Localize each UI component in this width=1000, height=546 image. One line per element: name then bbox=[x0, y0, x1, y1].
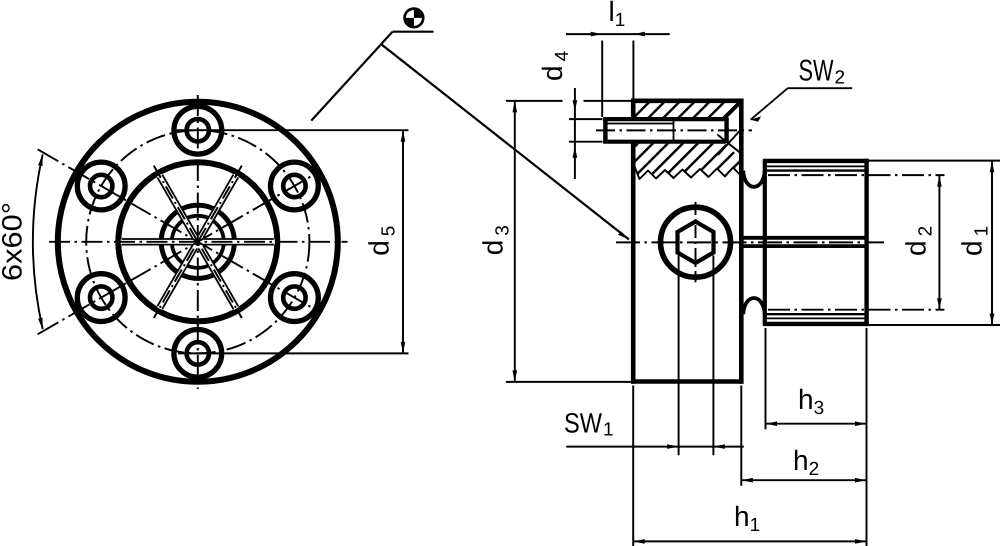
h2 arrow left bbox=[741, 478, 753, 483]
angle arc arrowhead top bbox=[38, 154, 43, 166]
set screw end divider bbox=[673, 121, 675, 140]
h3 arrow left bbox=[766, 421, 778, 426]
h3 ext line left bbox=[765, 328, 767, 429]
SW2 leader diagonal bbox=[751, 88, 788, 120]
d3 arrow top bbox=[513, 101, 518, 113]
angle arc arrowhead bottom bbox=[38, 318, 43, 330]
datum symbol filled quadrant bottom-left bbox=[405, 18, 414, 27]
d5 arrow top bbox=[401, 130, 406, 142]
flange outer circle bbox=[58, 102, 338, 382]
hatch band top (broken-out section) bbox=[635, 103, 740, 117]
flange bottom edge bbox=[631, 379, 744, 384]
undercut groove top bbox=[743, 171, 764, 187]
hatch region below hole with jagged break line bbox=[635, 144, 740, 179]
horizontal centerline bbox=[49, 241, 348, 243]
set screw hole top edge bbox=[603, 117, 726, 121]
spokes: 6 double radial lube grooves bbox=[122, 175, 274, 309]
d5 dimension line bbox=[402, 130, 404, 353]
bore thread line lower bbox=[741, 244, 866, 248]
hub circle bbox=[118, 162, 277, 321]
spoke white cores bbox=[121, 174, 275, 310]
d2 reference dash-dot bottom bbox=[768, 309, 945, 311]
thread minor circle bbox=[172, 216, 224, 268]
datum symbol filled quadrant top-right bbox=[414, 9, 423, 18]
thread root line top 1 bbox=[766, 165, 867, 167]
hex flat edge left / SW1 extension bbox=[678, 256, 680, 456]
l1 dimension line bbox=[566, 33, 670, 35]
cylinder top edge bbox=[763, 159, 869, 163]
bolt hole top bbox=[174, 106, 222, 154]
thread root line bottom 2 bbox=[766, 313, 867, 315]
leader leg to left view bbox=[311, 32, 392, 121]
h1 arrow right bbox=[855, 539, 867, 544]
d4 ext line hole top bbox=[569, 118, 603, 120]
d1 arrow top bbox=[990, 161, 995, 173]
SW1 dimension line bbox=[566, 446, 744, 448]
diagonal centerline 150-330 through holes bbox=[38, 149, 317, 310]
cylinder left face bbox=[763, 161, 767, 324]
cylinder bottom edge bbox=[763, 322, 869, 326]
h2 ext line left bbox=[740, 386, 742, 486]
d3 ext line top bbox=[506, 100, 563, 102]
thread major circle bbox=[161, 205, 234, 278]
symbol bar bbox=[393, 31, 434, 33]
SW2 leader bar bbox=[788, 87, 853, 89]
d4 arrow bottom bbox=[573, 147, 578, 158]
svg-text:6x60°: 6x60° bbox=[0, 202, 28, 281]
l1 ext line left bbox=[601, 41, 603, 118]
d4 arrow top bbox=[573, 100, 578, 110]
front hex socket vertical centerline bbox=[695, 202, 697, 282]
h1 ext line left bbox=[632, 386, 634, 546]
d3 ext line bottom bbox=[506, 381, 631, 383]
spoke dashdot 60-240 bbox=[154, 166, 242, 318]
d1 ext line top bbox=[869, 160, 1000, 162]
cylinder right face bbox=[864, 159, 868, 326]
d1 arrow bottom bbox=[990, 314, 995, 326]
angle dimension arc 6x60 bbox=[33, 154, 43, 329]
d4 dimension line bbox=[574, 88, 576, 179]
front hex socket circle bbox=[661, 207, 731, 277]
hole inner end cap bbox=[724, 117, 728, 143]
h1 dimension line bbox=[633, 540, 866, 542]
set screw axis centerline bbox=[596, 129, 752, 131]
shared right ext line h1 h2 h3 bbox=[866, 328, 868, 546]
d1 ext line bottom bbox=[869, 324, 1000, 326]
bolt hole upper-right bbox=[271, 162, 319, 210]
vertical centerline bbox=[197, 95, 199, 389]
h1 arrow left bbox=[633, 539, 645, 544]
SW1 arrow right bbox=[713, 444, 725, 449]
h3 dimension line bbox=[766, 423, 867, 425]
thread root line bottom 1 bbox=[766, 317, 867, 319]
datum symbol circle bbox=[405, 9, 424, 28]
l1 ext line right bbox=[632, 41, 634, 100]
l1 arrow left bbox=[591, 32, 603, 37]
bore thread line upper bbox=[741, 236, 866, 240]
chamfer edge top right bbox=[726, 103, 741, 117]
d3 dimension line bbox=[514, 101, 516, 382]
bolt hole upper-left bbox=[77, 162, 125, 210]
main axis centerline bbox=[616, 241, 884, 243]
h3 arrow right bbox=[855, 421, 867, 426]
spoke dashdot 120-300 bbox=[154, 166, 242, 318]
hex socket cross line 1 bbox=[717, 135, 739, 153]
d5 ext line bottom bbox=[178, 352, 409, 354]
d5 ext line top bbox=[175, 129, 409, 131]
l1 arrow right bbox=[633, 32, 645, 37]
leader arrowhead at axis bbox=[618, 231, 629, 239]
set screw hole bottom edge bbox=[603, 140, 726, 144]
diagonal centerline 210-30 through holes bbox=[38, 173, 317, 334]
h2 dimension line bbox=[741, 479, 866, 481]
leader leg to right view bbox=[381, 44, 629, 240]
bolt circle (dash-dot) bbox=[86, 130, 309, 353]
SW2 leader arrowhead bbox=[751, 116, 762, 122]
flange left edge upper segment bbox=[631, 99, 636, 118]
set screw left end cap bbox=[603, 117, 607, 142]
undercut groove bottom bbox=[743, 298, 764, 314]
d2 reference dash-dot top bbox=[768, 174, 945, 176]
d3 arrow bottom bbox=[513, 370, 518, 382]
bolt hole bottom bbox=[174, 330, 222, 378]
flange left edge lower segment bbox=[631, 143, 636, 384]
SW1 arrow left bbox=[667, 444, 679, 449]
d2 arrow top bbox=[937, 175, 942, 187]
flange top edge bbox=[631, 99, 743, 104]
d2 arrow bottom bbox=[937, 298, 942, 310]
jagged freehand break line bbox=[635, 167, 740, 180]
set screw thread thin line bbox=[608, 123, 674, 125]
flange right face bbox=[739, 99, 744, 384]
thread root line top 2 bbox=[766, 169, 867, 171]
d4 ext line hole bottom bbox=[569, 141, 603, 143]
d1 dimension line bbox=[991, 161, 993, 325]
d5 arrow bottom bbox=[401, 342, 406, 354]
d2 dimension line bbox=[938, 175, 940, 310]
h2 arrow right bbox=[855, 478, 867, 483]
hex socket cross line 2 bbox=[718, 128, 742, 155]
bolt hole lower-left bbox=[77, 274, 125, 322]
bolt hole lower-right bbox=[271, 274, 319, 322]
hex flat edge right / SW1 extension bbox=[712, 256, 714, 456]
hex socket hexagon bbox=[678, 222, 714, 263]
